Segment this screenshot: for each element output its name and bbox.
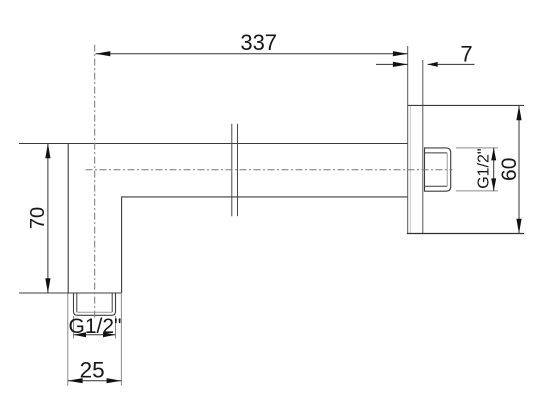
dimension 70 line	[47, 144, 49, 294]
bottom fitting thread root left	[76, 293, 78, 312]
dimension 70 top arrow	[45, 144, 50, 159]
dimension 7 right arrow (pointing left)	[428, 62, 438, 67]
G1/2 right dim top extension tick	[456, 147, 498, 149]
G1/2 right dim line	[493, 148, 495, 191]
wire tube inner corner: bottom edge of horizontal arm and right edge of vertical arm	[122, 197, 408, 293]
G1/2 bottom dim right arrow	[103, 332, 116, 337]
vertical centerline of drop tube (also 337-dim extension line)	[94, 45, 96, 319]
svg-text:60: 60	[498, 158, 521, 181]
G1/2 bottom dim left arrow	[74, 332, 87, 337]
svg-text:70: 70	[27, 207, 49, 229]
right fitting thread root bottom	[425, 185, 448, 187]
wall plate right edge (extended up as extension line for 7 dim)	[422, 60, 424, 234]
svg-text:G1/2": G1/2"	[69, 315, 122, 338]
dimension 337 left arrow	[96, 51, 111, 56]
dimension 25 right extension line	[120, 294, 122, 386]
dimension 60 line	[518, 105, 520, 233]
svg-text:G1/2": G1/2"	[475, 148, 492, 188]
G1/2 bottom dim left extension	[73, 316, 75, 339]
break line 1	[231, 124, 233, 217]
svg-text:25: 25	[80, 358, 105, 383]
wall plate inner faint line	[409, 106, 411, 233]
right threaded fitting outline	[425, 148, 451, 191]
bottom threaded fitting outline	[74, 293, 116, 315]
dimension 60 top arrow	[516, 105, 521, 120]
wire tube left outer edge	[67, 144, 69, 294]
horizontal centerline of arm	[86, 169, 453, 171]
svg-text:7: 7	[460, 41, 472, 66]
wall plate top edge (extended right as extension line for 60 dim)	[408, 104, 524, 106]
dimension 25 right arrow	[107, 378, 122, 383]
dimension 337 right arrow	[393, 51, 408, 56]
dimension 25 left arrow	[68, 378, 83, 383]
svg-text:337: 337	[240, 30, 277, 55]
wall plate bottom edge (extended right as extension line for 60 dim)	[407, 233, 524, 235]
G1/2 bottom dim right extension	[115, 316, 117, 339]
dimension 7 line left part	[376, 63, 408, 65]
break line 2	[237, 124, 239, 217]
G1/2 right dim bottom arrow	[491, 178, 496, 191]
dimension 337 line	[96, 53, 408, 55]
bottom fitting chamfer line	[77, 311, 112, 313]
wire tube bottom end (with 70-dim extension to left)	[19, 292, 122, 294]
dimension 60 bottom arrow	[516, 219, 521, 234]
dimension 25 line	[68, 380, 122, 382]
dimension 7 left arrow (outside, pointing right)	[393, 62, 408, 67]
G1/2 right dim bottom extension tick	[456, 190, 498, 192]
dimension 70 bottom arrow	[45, 278, 50, 293]
bottom fitting thread root right	[111, 293, 113, 312]
dimension 25 left extension line	[67, 294, 69, 386]
wall plate left edge (extended up as extension line for 337/7 dims)	[407, 46, 409, 234]
right fitting thread root top	[425, 152, 448, 154]
wire tube top edge (with 70-dim extension to left)	[19, 143, 408, 145]
G1/2 bottom dim line	[74, 334, 116, 336]
G1/2 right dim top arrow	[491, 148, 496, 161]
right fitting chamfer line	[446, 153, 448, 186]
dimension 7 line right part	[428, 63, 475, 65]
